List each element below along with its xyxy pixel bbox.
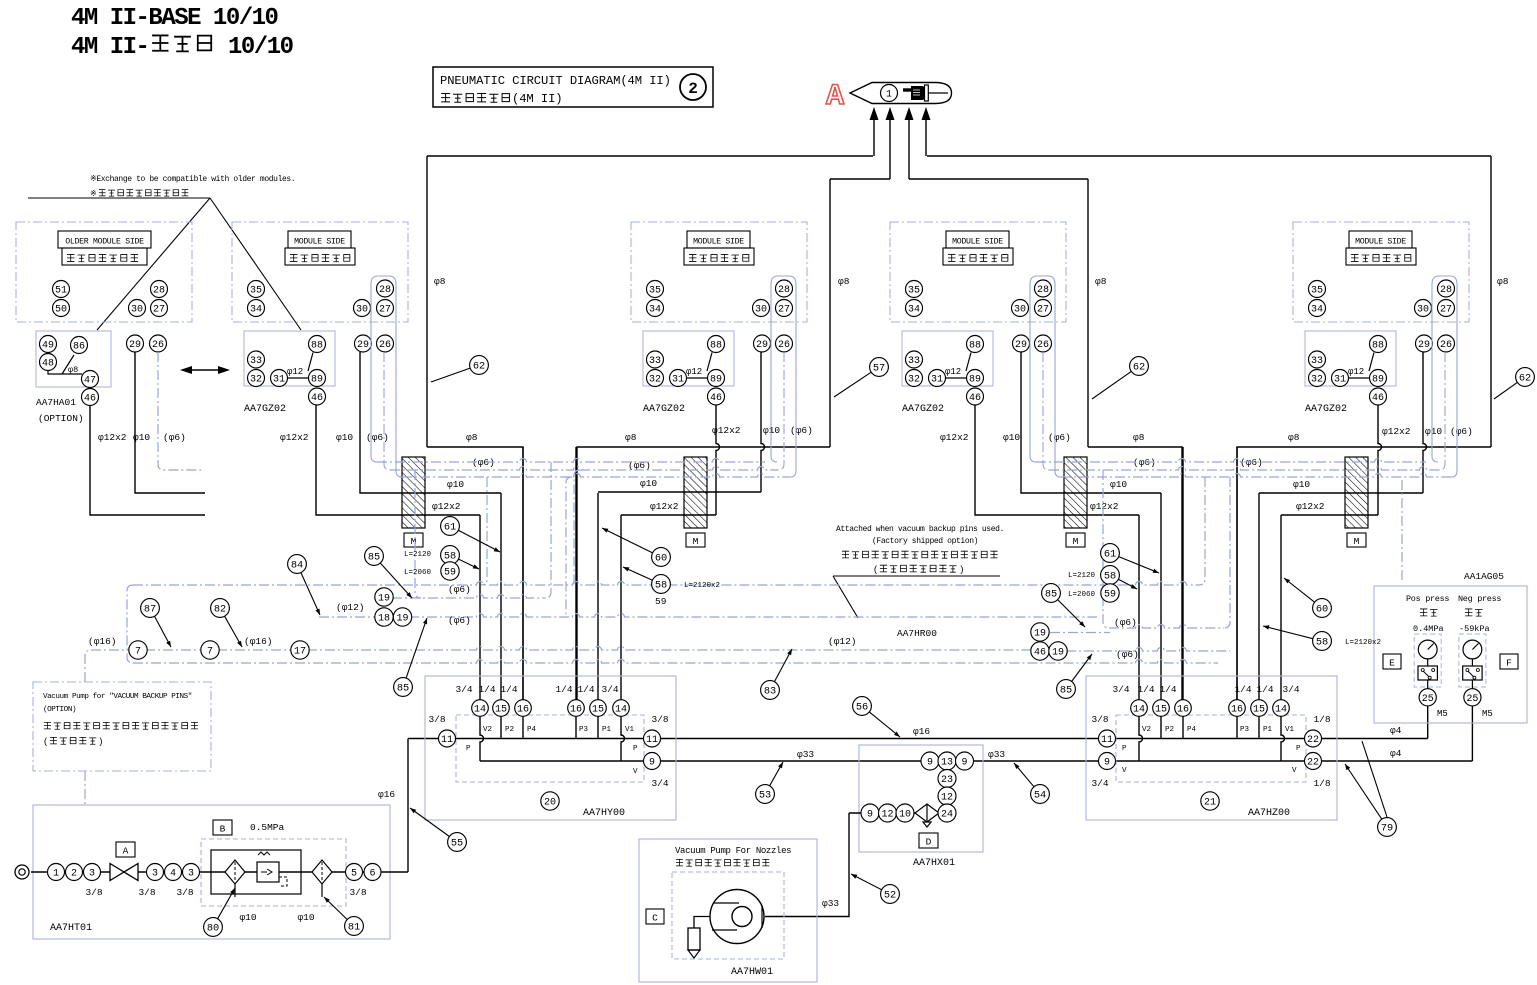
module circles 33/32/31	[248, 351, 265, 368]
svg-text:80: 80	[207, 923, 219, 935]
AA7GZ02 sub box	[902, 331, 993, 386]
FR unit solid box	[211, 850, 301, 894]
svg-text:26: 26	[1037, 340, 1049, 351]
lavender drop x415	[415, 470, 421, 598]
AA7HX01 check valve diamond	[915, 804, 939, 822]
wires in AA7HA01	[48, 370, 82, 374]
svg-text:85: 85	[1045, 589, 1057, 601]
svg-text:φ12x2: φ12x2	[1296, 501, 1325, 512]
lavender drop x574	[574, 470, 580, 585]
B label box	[213, 820, 232, 835]
svg-text:3/4: 3/4	[651, 778, 668, 789]
svg-text:31: 31	[273, 375, 285, 386]
svg-text:48: 48	[42, 359, 54, 370]
svg-text:30: 30	[1014, 305, 1026, 316]
lavender drop x566	[566, 477, 572, 617]
svg-text:AA7GZ02: AA7GZ02	[902, 404, 944, 415]
svg-text:V2: V2	[1142, 726, 1151, 734]
lavender 26 drop at x=1043	[1043, 352, 1049, 470]
svg-text:(: (	[873, 565, 878, 575]
regulator symbol	[257, 862, 279, 882]
wire 89 to 88	[966, 353, 971, 372]
svg-text:27: 27	[153, 305, 165, 316]
svg-text:AA7GZ02: AA7GZ02	[244, 404, 286, 415]
older circles 51/50	[53, 281, 70, 298]
svg-text:P2: P2	[1165, 726, 1174, 734]
svg-text:2: 2	[71, 869, 77, 880]
svg-text:(: (	[43, 737, 48, 747]
svg-text:1/4: 1/4	[1137, 684, 1154, 695]
svg-text:3/4: 3/4	[601, 684, 618, 695]
svg-text:φ12x2: φ12x2	[1090, 501, 1119, 512]
lavender bus y585 with left U-cap to y663	[127, 585, 133, 663]
hatched wall block M1	[402, 457, 425, 528]
drawing title box	[433, 67, 713, 107]
svg-text:E: E	[1389, 658, 1395, 669]
air source symbol	[15, 865, 29, 879]
svg-text:88: 88	[969, 341, 981, 352]
svg-text:9: 9	[649, 758, 655, 769]
svg-text:(φ6): (φ6)	[448, 584, 471, 595]
svg-text:1: 1	[886, 90, 892, 101]
lavender U y598	[392, 595, 545, 599]
AA7HY00 supply drop x408	[407, 739, 409, 873]
svg-text:φ12x2: φ12x2	[1382, 426, 1411, 437]
hatched wall block M2	[684, 457, 707, 528]
module circles 88/89/46	[708, 336, 725, 353]
svg-text:L=2120: L=2120	[1068, 572, 1096, 580]
module circles 29/26	[754, 335, 771, 352]
bus wire y179 segments	[830, 178, 890, 180]
FR unit dashed box	[201, 839, 346, 906]
svg-text:14: 14	[1133, 705, 1145, 716]
svg-text:34: 34	[649, 305, 661, 316]
svg-text:61: 61	[1104, 549, 1116, 561]
svg-text:φ10: φ10	[1293, 479, 1310, 490]
svg-text:φ8: φ8	[625, 432, 637, 443]
svg-text:F: F	[1506, 658, 1512, 669]
svg-text:(φ12): (φ12)	[336, 602, 365, 613]
svg-text:): )	[98, 737, 103, 747]
module Japanese label box	[285, 248, 355, 265]
svg-text:(φ12): (φ12)	[828, 636, 857, 647]
svg-text:32: 32	[649, 375, 661, 386]
svg-text:1/8: 1/8	[1313, 778, 1330, 789]
module dashed enclosure cx=978	[890, 222, 1066, 322]
C label box	[646, 909, 664, 924]
svg-text:19: 19	[1034, 629, 1046, 640]
module circles 30/28/27	[1012, 300, 1029, 317]
svg-text:φ10: φ10	[336, 432, 353, 443]
svg-text:-59kPa: -59kPa	[1459, 624, 1490, 634]
svg-text:φ16: φ16	[378, 789, 395, 800]
svg-text:10/10: 10/10	[228, 34, 294, 61]
P rail phi16 main line y738.5	[408, 738, 1428, 740]
svg-text:35: 35	[908, 286, 920, 297]
svg-text:3/8: 3/8	[349, 887, 366, 898]
wire 89 to 88	[308, 353, 313, 372]
module Japanese label box	[684, 248, 754, 265]
older module Japanese label box	[62, 248, 147, 265]
module Japanese label box	[943, 248, 1013, 265]
svg-text:V: V	[633, 768, 638, 776]
MODULE SIDE label box	[687, 231, 750, 248]
module circles 35/34	[248, 281, 265, 298]
svg-text:P1: P1	[1263, 726, 1273, 734]
svg-text:26: 26	[1440, 340, 1452, 351]
svg-text:P4: P4	[1187, 726, 1197, 734]
svg-text:(φ6): (φ6)	[448, 615, 471, 626]
svg-text:L=2120x2: L=2120x2	[1345, 639, 1381, 647]
svg-text:16: 16	[1177, 705, 1189, 716]
svg-text:26: 26	[152, 340, 164, 351]
svg-text:89: 89	[311, 375, 323, 386]
older circles 49/86/48/47/46	[40, 336, 57, 353]
svg-text:(OPTION): (OPTION)	[38, 413, 84, 424]
svg-text:62: 62	[1133, 362, 1145, 374]
lavender capsule around 28/27 at x=1445	[1432, 276, 1457, 477]
svg-text:P2: P2	[505, 726, 514, 734]
svg-text:3/8: 3/8	[428, 714, 445, 725]
svg-text:29: 29	[756, 340, 768, 351]
module circles 33/32/31	[647, 351, 664, 368]
svg-text:C: C	[652, 913, 658, 924]
MODULE SIDE label box	[288, 231, 351, 248]
svg-text:3/8: 3/8	[138, 887, 155, 898]
svg-text:V1: V1	[1285, 726, 1295, 734]
pointing hand icon	[903, 85, 948, 101]
module1 phi12x2 pipe	[316, 406, 480, 516]
svg-text:10: 10	[899, 810, 911, 821]
svg-text:58: 58	[655, 580, 667, 592]
svg-text:1/4: 1/4	[555, 684, 572, 695]
svg-text:(φ6): (φ6)	[1450, 426, 1473, 437]
lavender 26 drop at x=784	[778, 352, 784, 470]
svg-text:(OPTION): (OPTION)	[43, 706, 76, 714]
svg-text:M: M	[693, 536, 699, 547]
module3 phi12x2 pipe	[975, 406, 1139, 516]
svg-text:φ10: φ10	[1425, 426, 1442, 437]
svg-text:25: 25	[1466, 694, 1478, 705]
lavender phi6 run y470 pair2	[1049, 467, 1439, 470]
module dashed enclosure cx=719	[631, 222, 807, 322]
older circles 30/28/27	[129, 300, 146, 317]
AA7GZ02 sub box	[244, 331, 335, 386]
svg-text:19: 19	[396, 614, 408, 625]
svg-text:83: 83	[764, 686, 776, 698]
MODULE SIDE label box	[1349, 231, 1412, 248]
module3 phi10 pipe	[1021, 352, 1161, 493]
svg-text:79: 79	[1381, 823, 1393, 835]
bus circles 19 18 19	[375, 588, 393, 606]
AA7HY00 id circle 20	[541, 792, 559, 810]
svg-text:46: 46	[311, 393, 323, 404]
svg-text:A: A	[826, 80, 844, 114]
svg-text:1/4: 1/4	[478, 684, 495, 695]
svg-text:φ12x2: φ12x2	[280, 432, 309, 443]
AA7HT01 box	[33, 805, 390, 939]
module circles 88/89/46	[1370, 336, 1387, 353]
svg-text:OLDER MODULE SIDE: OLDER MODULE SIDE	[65, 238, 144, 247]
pressure gauge + switch at x=1427.7	[1414, 634, 1441, 687]
svg-text:φ8: φ8	[1095, 276, 1107, 287]
arrow head x=874	[870, 107, 879, 120]
wire 89 to 88	[1369, 353, 1374, 372]
leader 79 (two lines)	[1362, 741, 1387, 817]
svg-text:(φ6): (φ6)	[1048, 432, 1071, 443]
svg-text:4M II-BASE 10/10: 4M II-BASE 10/10	[71, 5, 279, 32]
leader 53	[756, 762, 783, 803]
module circles 30/28/27	[354, 300, 371, 317]
AA7HX01 row pipe	[849, 812, 947, 814]
svg-text:33: 33	[908, 356, 920, 367]
svg-text:54: 54	[1034, 790, 1046, 802]
arrow tail wires	[873, 118, 875, 156]
svg-text:V: V	[1122, 767, 1127, 775]
switch feeds	[1427, 706, 1429, 739]
svg-text:12: 12	[881, 810, 893, 821]
svg-text:MODULE SIDE: MODULE SIDE	[693, 238, 744, 247]
leader 85 b	[394, 618, 428, 696]
svg-text:5: 5	[351, 869, 357, 880]
svg-text:81: 81	[348, 922, 360, 934]
svg-text:60: 60	[1316, 604, 1328, 616]
circled 1 inside pill	[881, 85, 898, 102]
svg-text:16: 16	[517, 705, 529, 716]
svg-text:AA7GZ02: AA7GZ02	[1305, 404, 1347, 415]
svg-text:87: 87	[144, 604, 156, 616]
wire 31 to 89	[1349, 377, 1370, 379]
lavender phi6 run y477 pair1	[402, 474, 790, 477]
lavender phi6 run y462 pair2	[1036, 459, 1426, 463]
pump intake and muffler	[694, 917, 710, 929]
svg-text:9: 9	[867, 810, 873, 821]
note underline and pointer V	[28, 197, 210, 199]
svg-text:φ12x2: φ12x2	[432, 501, 461, 512]
AA7HX01 column pipe	[946, 761, 948, 813]
lavender drop x1205	[1199, 477, 1205, 585]
wire 31 to 89	[687, 377, 708, 379]
module circles 88/89/46	[309, 336, 326, 353]
A label box	[116, 842, 135, 857]
svg-text:14: 14	[615, 705, 627, 716]
leader 85 a	[365, 547, 412, 598]
leader 54	[1014, 763, 1049, 803]
svg-text:33: 33	[649, 356, 661, 367]
svg-text:φ16: φ16	[913, 726, 930, 737]
svg-text:82: 82	[214, 604, 226, 616]
svg-text:AA1AG05: AA1AG05	[1464, 571, 1504, 582]
leader 83	[761, 649, 792, 699]
svg-text:φ12x2: φ12x2	[940, 432, 969, 443]
svg-text:26: 26	[379, 340, 391, 351]
svg-text:31: 31	[672, 375, 684, 386]
module dashed enclosure cx=104	[16, 222, 192, 322]
leader 52	[851, 874, 899, 903]
svg-text:15: 15	[592, 705, 604, 716]
lavender drop x1402	[1401, 480, 1403, 583]
svg-text:51: 51	[55, 286, 67, 297]
svg-text:62: 62	[473, 361, 485, 373]
svg-text:φ10: φ10	[447, 479, 464, 490]
lavender drop x1230	[1224, 477, 1230, 628]
svg-text:86: 86	[73, 342, 85, 353]
svg-text:46: 46	[1372, 393, 1384, 404]
bus circles 19 46 19 right	[1031, 623, 1049, 641]
svg-text:58: 58	[444, 551, 456, 563]
svg-text:85: 85	[397, 683, 409, 695]
arrow head x=909	[905, 107, 914, 120]
svg-text:31: 31	[1334, 375, 1346, 386]
svg-text:62: 62	[1519, 373, 1531, 385]
svg-text:(φ6): (φ6)	[1114, 617, 1137, 628]
svg-text:0.5MPa: 0.5MPa	[250, 822, 285, 833]
svg-text:35: 35	[250, 286, 262, 297]
svg-text:P: P	[1122, 745, 1127, 753]
AA7HZ00 id circle 21	[1201, 792, 1219, 810]
svg-text:Pos press: Pos press	[1406, 594, 1449, 604]
pointer pill shape	[850, 83, 952, 104]
svg-text:(φ6): (φ6)	[790, 425, 813, 436]
svg-text:58: 58	[1316, 637, 1328, 649]
svg-text:27: 27	[1037, 305, 1049, 316]
svg-text:16: 16	[570, 705, 582, 716]
module1 phi10 pipe	[360, 352, 501, 493]
svg-text:AA7HY00: AA7HY00	[583, 808, 625, 819]
svg-text:φ8: φ8	[434, 276, 446, 287]
svg-text:(4M II): (4M II)	[512, 92, 563, 106]
module circles 33/32/31	[1309, 351, 1326, 368]
svg-text:11: 11	[646, 735, 658, 746]
svg-text:MODULE SIDE: MODULE SIDE	[1355, 238, 1406, 247]
lavender 26 drop at x=384	[384, 352, 390, 470]
lavender drop x487	[481, 477, 487, 585]
pressure gauge + switch at x=1472.4	[1459, 634, 1486, 687]
lavender VACUUM box feed	[84, 771, 86, 805]
svg-text:23: 23	[941, 775, 953, 786]
svg-text:※Exchange to be compatible wit: ※Exchange to be compatible with older mo…	[90, 175, 295, 184]
AA7HA01 sub box	[36, 331, 111, 387]
leaders 60/58 module4	[1284, 578, 1331, 617]
AA7HX01 circles top row	[921, 752, 939, 770]
lavender phi6 run y477 pair2	[1061, 474, 1451, 477]
svg-text:24: 24	[941, 810, 953, 821]
svg-text:L=2120x2: L=2120x2	[684, 582, 720, 590]
svg-text:M: M	[1073, 536, 1079, 547]
M label box 2	[686, 533, 705, 547]
svg-text:19: 19	[1052, 648, 1064, 659]
leader 62 module1	[431, 356, 488, 382]
svg-text:φ12: φ12	[1348, 367, 1364, 377]
svg-text:φ33: φ33	[797, 749, 814, 760]
svg-text:50: 50	[55, 305, 67, 316]
svg-text:16: 16	[1231, 705, 1243, 716]
svg-text:31: 31	[931, 375, 943, 386]
svg-text:L=2060: L=2060	[1068, 591, 1096, 599]
svg-text:φ10: φ10	[1003, 432, 1020, 443]
svg-text:17: 17	[294, 647, 306, 658]
circled 2 revision mark	[680, 74, 706, 100]
module circles 29/26	[355, 335, 372, 352]
svg-text:φ10: φ10	[239, 912, 256, 923]
svg-text:3: 3	[89, 869, 95, 880]
svg-text:MODULE SIDE: MODULE SIDE	[294, 238, 345, 247]
AA1AG05 box	[1374, 586, 1527, 723]
svg-text:(φ6): (φ6)	[163, 432, 186, 443]
svg-text:φ33: φ33	[988, 749, 1005, 760]
svg-text:V: V	[1292, 767, 1297, 775]
filter diamond	[225, 860, 245, 884]
svg-text:56: 56	[856, 702, 868, 714]
svg-text:34: 34	[1311, 305, 1323, 316]
svg-text:6: 6	[369, 869, 375, 880]
svg-text:85: 85	[1060, 685, 1072, 697]
svg-text:21: 21	[1204, 798, 1216, 809]
svg-text:14: 14	[1275, 705, 1287, 716]
svg-text:φ33: φ33	[822, 898, 839, 909]
svg-text:27: 27	[379, 305, 391, 316]
svg-text:32: 32	[1311, 375, 1323, 386]
svg-text:φ12: φ12	[945, 367, 961, 377]
svg-text:Attached when vacuum backup pi: Attached when vacuum backup pins used.	[836, 525, 1004, 534]
svg-text:1/4: 1/4	[1234, 684, 1251, 695]
svg-text:φ8: φ8	[1133, 432, 1145, 443]
leader 84	[288, 555, 320, 615]
svg-text:φ10: φ10	[640, 478, 657, 489]
svg-text:27: 27	[1440, 305, 1452, 316]
svg-text:28: 28	[1440, 285, 1452, 296]
AA7HR00 bus y650	[85, 650, 91, 682]
svg-text:19: 19	[378, 594, 390, 605]
AA7HT01 main line	[31, 871, 408, 873]
M label box 3	[1066, 533, 1085, 547]
svg-text:7: 7	[207, 647, 213, 658]
svg-text:3/4: 3/4	[455, 684, 472, 695]
hatched wall block M4	[1345, 457, 1368, 528]
svg-text:P: P	[633, 745, 638, 753]
svg-text:33: 33	[250, 356, 262, 367]
hatched wall block M3	[1064, 457, 1087, 528]
lavender bus y663	[133, 660, 1218, 664]
svg-text:(φ6): (φ6)	[366, 432, 389, 443]
svg-text:4: 4	[170, 869, 176, 880]
svg-text:PNEUMATIC CIRCUIT DIAGRAM(4M I: PNEUMATIC CIRCUIT DIAGRAM(4M II)	[440, 74, 671, 88]
svg-text:3/8: 3/8	[651, 714, 668, 725]
AA7HW01 box	[639, 839, 817, 982]
svg-text:(Factory shipped option): (Factory shipped option)	[872, 537, 978, 546]
svg-text:0.4MPa: 0.4MPa	[1413, 624, 1444, 634]
AA7HW01 inner dashed box	[672, 872, 784, 959]
svg-text:15: 15	[1155, 705, 1167, 716]
svg-text:52: 52	[884, 890, 896, 902]
lavender 26 drop at x=1445	[1439, 352, 1445, 470]
AA7HX01 circles column	[938, 770, 956, 788]
svg-text:88: 88	[311, 341, 323, 352]
lavender phi6 run y462 pair1	[377, 459, 765, 463]
svg-text:φ8: φ8	[838, 276, 850, 287]
lavender capsule around 28/27 at x=784	[771, 276, 796, 477]
hand valve A symbol	[110, 864, 124, 881]
svg-text:57: 57	[873, 363, 885, 375]
lavender phi6 run y470 pair1	[390, 467, 778, 470]
svg-text:V2: V2	[483, 726, 492, 734]
svg-text:9: 9	[961, 758, 967, 769]
svg-text:M: M	[411, 536, 417, 547]
svg-text:φ12x2: φ12x2	[98, 432, 127, 443]
svg-text:2: 2	[688, 80, 698, 98]
svg-text:Vacuum Pump For Nozzles: Vacuum Pump For Nozzles	[675, 846, 791, 856]
module circles 35/34	[1309, 281, 1326, 298]
